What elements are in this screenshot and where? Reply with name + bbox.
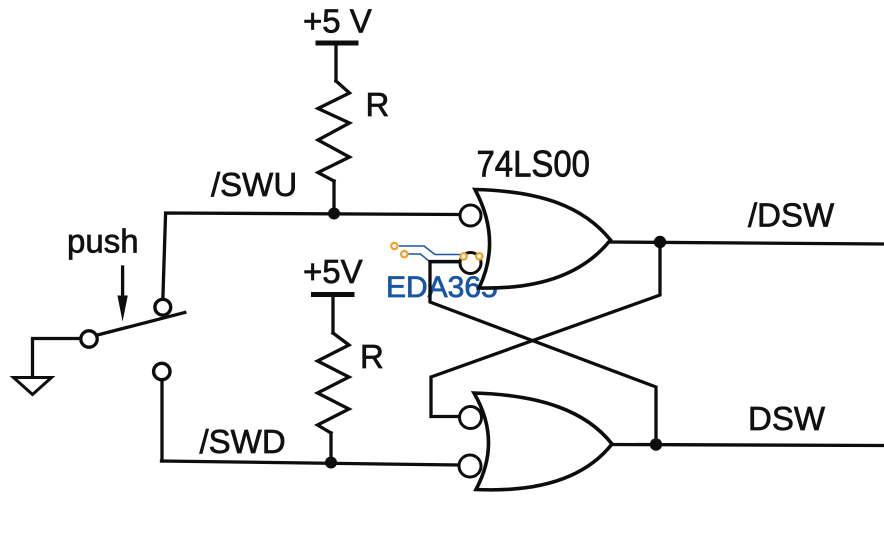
svg-text:DSW: DSW [748,400,826,437]
svg-text:+5V: +5V [303,253,363,290]
svg-text:/SWU: /SWU [211,166,297,203]
svg-text:/DSW: /DSW [748,197,835,234]
svg-text:/SWD: /SWD [200,423,286,460]
svg-text:74LS00: 74LS00 [477,143,591,185]
svg-text:R: R [366,86,390,123]
svg-text:+5 V: +5 V [303,3,372,40]
svg-text:push: push [67,223,139,260]
svg-text:R: R [360,338,384,375]
